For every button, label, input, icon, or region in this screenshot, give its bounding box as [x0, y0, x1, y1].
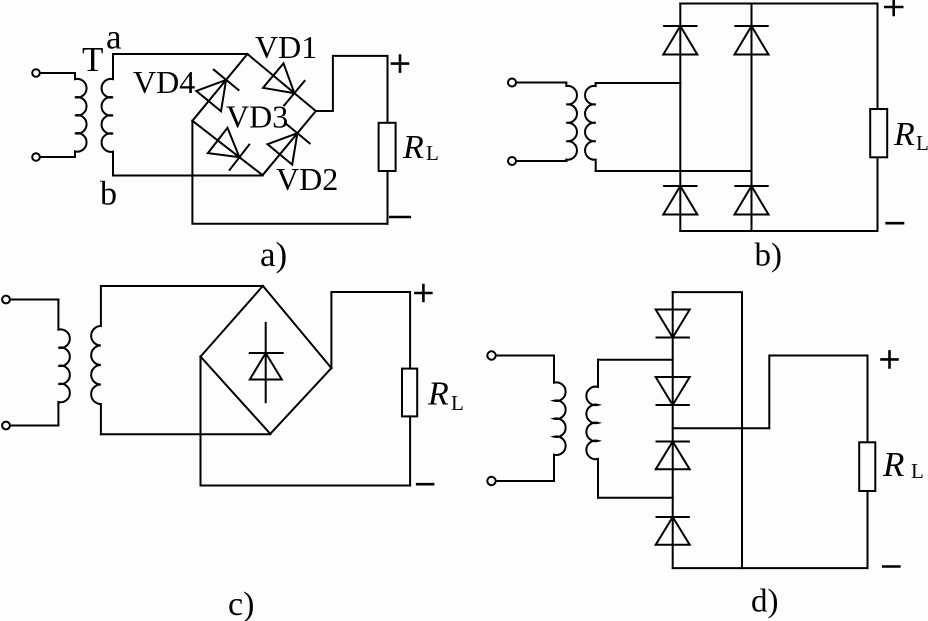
svg-text:L: L: [916, 131, 928, 155]
svg-text:T: T: [82, 40, 103, 79]
transformer primary terminal bottom d): [487, 477, 495, 485]
transformer T primary terminal top: [32, 69, 40, 77]
svg-text:a): a): [260, 235, 287, 274]
minus sign c): [417, 483, 433, 486]
diode D3 d): [656, 442, 690, 470]
transformer primary winding c): [58, 300, 69, 426]
bridge edge bottom-left a): [192, 121, 262, 175]
svg-text:b: b: [100, 176, 117, 213]
svg-text:VD2: VD2: [276, 161, 338, 197]
svg-text:R: R: [882, 445, 904, 484]
transformer secondary winding d): [586, 360, 598, 498]
plus sign c): [415, 285, 431, 301]
svg-text:R: R: [893, 116, 915, 153]
diode VD2: [268, 123, 310, 165]
transformer primary winding b): [566, 83, 577, 162]
diode VD4: [196, 70, 238, 112]
bridge block edge bottom-left c): [201, 357, 271, 434]
transformer primary terminal bottom c): [2, 422, 10, 430]
bridge block edge bottom-right c): [270, 368, 331, 434]
svg-text:R: R: [427, 376, 449, 413]
wire resistor to bottom rail d): [867, 491, 869, 568]
minus sign a): [390, 216, 410, 219]
wire primary top lead b): [516, 82, 566, 84]
transformer primary terminal bottom b): [508, 157, 516, 165]
bridge block edge top-right c): [263, 286, 332, 368]
minus sign b): [887, 222, 903, 225]
wire resistor to minus rail c): [409, 416, 411, 485]
svg-text:a: a: [106, 18, 122, 57]
wire primary bottom lead c): [10, 425, 58, 427]
svg-text:L: L: [911, 459, 924, 483]
resistor RL b): [870, 109, 887, 157]
transformer T primary terminal bottom: [32, 153, 40, 161]
bridge edge top-right a): [247, 54, 315, 111]
bridge edge top-left a): [192, 54, 247, 121]
wire primary bottom lead d): [496, 480, 554, 482]
svg-text:VD1: VD1: [255, 29, 317, 65]
bridge edge bottom-right a): [263, 111, 316, 175]
diode D1 d): [656, 310, 690, 338]
wire bridge right to plus rail a): [316, 56, 388, 123]
wire secondary top to left rail b): [596, 82, 681, 84]
transformer primary terminal top d): [487, 351, 495, 359]
wire node a to bridge top: [113, 53, 247, 55]
bridge block diode symbol c): [250, 323, 283, 402]
diode string rail d): [672, 292, 674, 568]
wire primary top lead a): [40, 72, 75, 74]
diode VD3: [208, 128, 249, 170]
plus sign d): [882, 351, 898, 367]
svg-text:L: L: [451, 391, 464, 415]
wire secondary top to bridge top c): [101, 285, 263, 287]
svg-text:b): b): [755, 238, 783, 274]
wire primary top lead c): [10, 299, 58, 301]
top rail b): [680, 4, 877, 110]
wire primary bottom lead b): [516, 160, 566, 162]
wire resistor to minus rail a): [387, 171, 389, 224]
diode bottom-left b): [663, 186, 697, 215]
wire middle tap to plus d): [673, 356, 868, 443]
resistor RL d): [859, 442, 875, 491]
svg-text:R: R: [402, 129, 424, 166]
diode D2 d): [656, 377, 690, 405]
right bridge rail b): [751, 4, 753, 232]
wire secondary bottom to right rail b): [596, 170, 752, 172]
diode top-left b): [663, 26, 697, 55]
bottom rail b): [680, 157, 877, 231]
diode bottom-right b): [735, 186, 769, 215]
wire string top to right bypass d): [673, 292, 742, 568]
transformer primary terminal top c): [2, 296, 10, 304]
wire secondary bottom to bridge bottom c): [101, 433, 270, 435]
transformer secondary winding c): [91, 286, 101, 434]
svg-text:VD3: VD3: [226, 99, 288, 135]
wire primary top lead d): [496, 355, 554, 357]
transformer T secondary winding: [102, 54, 113, 176]
transformer secondary winding b): [585, 83, 596, 171]
diode D4 d): [656, 517, 690, 545]
diode top-right b): [735, 26, 769, 55]
wire node b to bridge bottom: [113, 175, 263, 177]
svg-text:L: L: [426, 141, 439, 165]
plus sign a): [392, 56, 408, 72]
diode VD1: [263, 63, 305, 105]
svg-text:d): d): [751, 584, 779, 620]
resistor RL a): [379, 123, 396, 171]
wire bottom rail c): [201, 357, 411, 486]
wire bridge right to plus rail c): [331, 292, 410, 369]
wire bottom rail a): [192, 121, 387, 224]
left bridge rail b): [679, 4, 681, 232]
wire primary bottom lead a): [40, 156, 75, 158]
wire bottom rail d): [673, 567, 868, 569]
wire secondary bottom tap d): [598, 497, 673, 499]
svg-text:c): c): [228, 586, 254, 621]
transformer primary terminal top b): [508, 79, 516, 87]
wire secondary top tap d): [598, 359, 673, 361]
svg-text:VD4: VD4: [133, 64, 195, 100]
resistor RL c): [402, 369, 417, 417]
plus sign b): [885, 0, 902, 15]
transformer primary winding d): [554, 356, 566, 482]
bridge block edge top-left c): [201, 286, 263, 357]
minus sign d): [883, 565, 899, 568]
transformer T primary winding: [75, 73, 87, 157]
